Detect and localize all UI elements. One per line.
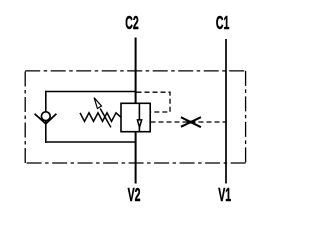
svg-text:V2: V2	[128, 185, 141, 206]
enclosure boundary (dash-dot valve envelope)	[25, 71, 245, 163]
adjustable spring	[80, 113, 121, 122]
wire bypass left rail	[45, 91, 47, 143]
spring adjustment arrow shaft	[100, 109, 111, 128]
relief valve flow arrowhead	[137, 120, 141, 127]
wire C2-V2 main line	[135, 38, 137, 184]
wire C1-V1 pilot port line	[225, 39, 227, 184]
check valve ball	[41, 112, 50, 121]
port label V2	[128, 185, 141, 206]
port label C2	[125, 13, 138, 34]
svg-text:V1: V1	[218, 185, 231, 206]
spring adjustment arrowhead	[94, 98, 101, 109]
pilot line to port V1 (dashed)	[151, 121, 227, 123]
wire bypass bottom rail	[45, 141, 137, 143]
svg-text:C2: C2	[125, 13, 138, 34]
orifice restrictor	[181, 117, 201, 127]
port label C1	[216, 13, 229, 34]
relief valve flow path	[138, 103, 140, 131]
wire bypass top rail	[45, 91, 137, 93]
check valve seat	[35, 114, 57, 124]
port label V1	[218, 185, 231, 206]
pilot line internal loop (dashed)	[137, 92, 171, 112]
svg-text:C1: C1	[216, 13, 229, 34]
relief valve body	[121, 103, 150, 131]
